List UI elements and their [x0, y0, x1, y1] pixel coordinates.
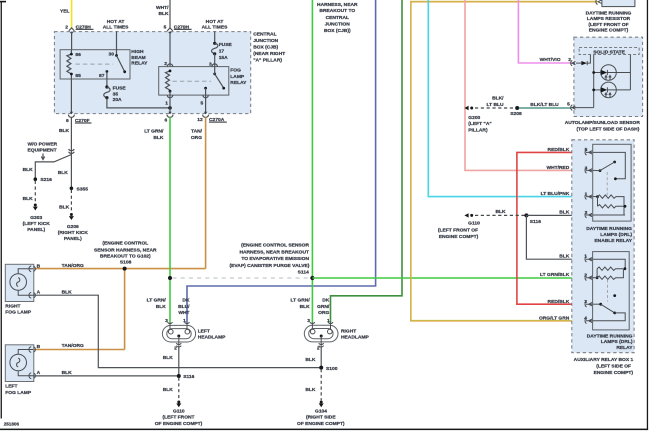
svg-text:BLK: BLK	[62, 370, 73, 376]
svg-text:BREAKOUT TO G102): BREAKOUT TO G102)	[100, 253, 151, 259]
svg-text:BLK: BLK	[23, 167, 34, 173]
svg-text:G206: G206	[67, 224, 79, 230]
svg-text:5: 5	[200, 100, 203, 106]
svg-text:1: 1	[327, 318, 330, 324]
svg-text:S355: S355	[77, 186, 89, 192]
svg-text:WHT/RED: WHT/RED	[546, 165, 569, 171]
svg-text:BOX (CJB)): BOX (CJB))	[324, 28, 351, 34]
svg-text:DAYTIME RUNNING: DAYTIME RUNNING	[587, 333, 633, 339]
svg-text:FOG: FOG	[230, 68, 241, 74]
svg-text:(TOP LEFT SIDE OF DASH): (TOP LEFT SIDE OF DASH)	[576, 126, 639, 132]
svg-text:20A: 20A	[113, 97, 122, 103]
svg-text:YEL: YEL	[60, 8, 70, 14]
svg-text:HEADLAMP: HEADLAMP	[341, 334, 369, 340]
svg-text:LAMPS RESISTOR: LAMPS RESISTOR	[587, 16, 631, 22]
svg-text:AUTOLAMP/SUNLOAD SENSOR: AUTOLAMP/SUNLOAD SENSOR	[565, 120, 641, 126]
svg-text:PANEL): PANEL)	[27, 227, 45, 233]
svg-text:(ENGINE CONTROL SENSOR: (ENGINE CONTROL SENSOR	[241, 243, 309, 249]
svg-text:CENTRAL: CENTRAL	[253, 31, 276, 37]
svg-text:RIGHT: RIGHT	[5, 303, 20, 309]
svg-text:ENABLE RELAY: ENABLE RELAY	[594, 238, 632, 244]
svg-text:RED/BLK: RED/BLK	[548, 299, 570, 305]
svg-text:BOX (CJB): BOX (CJB)	[253, 44, 278, 50]
svg-text:LAMPS (DRL): LAMPS (DRL)	[600, 232, 632, 238]
svg-text:HEADLAMP: HEADLAMP	[198, 335, 226, 341]
svg-text:BLK: BLK	[559, 210, 570, 216]
svg-text:(LEFT FRONT OF: (LEFT FRONT OF	[588, 22, 628, 28]
svg-text:1: 1	[183, 318, 186, 324]
svg-text:2: 2	[65, 24, 68, 30]
svg-text:RELAY: RELAY	[616, 345, 633, 351]
svg-text:DAYTIME RUNNING: DAYTIME RUNNING	[586, 226, 632, 232]
svg-text:WHT: WHT	[178, 310, 189, 316]
svg-text:251806: 251806	[4, 422, 20, 427]
svg-text:(NEAR RIGHT: (NEAR RIGHT	[253, 51, 285, 57]
svg-text:LT GRN/: LT GRN/	[144, 129, 164, 135]
svg-text:ENGINE COMPT): ENGINE COMPT)	[439, 234, 479, 240]
svg-text:DK: DK	[322, 298, 330, 304]
svg-text:LT GRN/: LT GRN/	[147, 298, 167, 304]
svg-text:ALL TIMES: ALL TIMES	[103, 25, 129, 31]
svg-text:BLK/: BLK/	[492, 96, 504, 102]
svg-text:35: 35	[113, 91, 119, 97]
svg-text:3: 3	[307, 318, 310, 324]
svg-text:RED/BLK: RED/BLK	[548, 147, 570, 153]
svg-text:G104: G104	[315, 408, 327, 414]
svg-text:FUSE: FUSE	[113, 85, 127, 91]
svg-text:12: 12	[197, 117, 203, 123]
svg-text:85: 85	[75, 73, 81, 79]
svg-text:ORG/LT GRN: ORG/LT GRN	[539, 316, 570, 322]
svg-text:2: 2	[164, 61, 167, 67]
svg-text:3: 3	[165, 318, 168, 324]
svg-text:AUXILIARY RELAY BOX 1: AUXILIARY RELAY BOX 1	[574, 357, 634, 363]
svg-text:SENSOR HARNESS, NEAR: SENSOR HARNESS, NEAR	[94, 247, 157, 253]
svg-text:BLK: BLK	[153, 135, 164, 141]
svg-text:ENGINE COMPT): ENGINE COMPT)	[589, 28, 629, 34]
svg-text:6: 6	[66, 118, 69, 124]
svg-text:G303: G303	[30, 215, 42, 221]
svg-text:S116: S116	[530, 219, 541, 225]
svg-text:PANEL): PANEL)	[64, 236, 82, 242]
svg-text:(LEFT "A": (LEFT "A"	[468, 121, 491, 127]
svg-text:BLU/: BLU/	[178, 304, 190, 310]
svg-text:S116: S116	[183, 374, 194, 380]
svg-text:"A" PILLAR): "A" PILLAR)	[253, 57, 282, 63]
svg-text:LAMP: LAMP	[230, 74, 245, 80]
svg-text:(EVAP) CANISTER PURGE VALVE): (EVAP) CANISTER PURGE VALVE)	[230, 263, 310, 269]
svg-text:G200: G200	[468, 115, 480, 121]
svg-text:OF ENGINE COMPT): OF ENGINE COMPT)	[297, 421, 345, 427]
svg-text:3: 3	[209, 62, 212, 68]
svg-text:ALL TIMES: ALL TIMES	[202, 25, 228, 31]
svg-text:(ENGINE CONTROL: (ENGINE CONTROL	[102, 241, 148, 247]
svg-text:FUSE: FUSE	[219, 42, 233, 48]
svg-text:G110: G110	[173, 408, 185, 414]
svg-text:(LEFT FRONT: (LEFT FRONT	[162, 415, 194, 421]
svg-text:BREAKOUT TO: BREAKOUT TO	[319, 8, 355, 14]
svg-text:SOLID STATE: SOLID STATE	[593, 50, 625, 56]
svg-text:15A: 15A	[219, 55, 228, 61]
svg-text:ORG: ORG	[318, 310, 329, 316]
svg-text:LT BLU: LT BLU	[486, 102, 503, 108]
svg-text:BLK/LT BLU: BLK/LT BLU	[530, 102, 559, 108]
svg-text:BLK: BLK	[559, 253, 570, 259]
svg-text:BLK: BLK	[300, 304, 311, 310]
svg-text:BLK: BLK	[58, 170, 69, 176]
svg-text:30: 30	[109, 51, 115, 57]
svg-text:G110: G110	[468, 220, 480, 226]
svg-text:WHT/: WHT/	[156, 5, 169, 11]
svg-text:DAYTIME RUNNING: DAYTIME RUNNING	[586, 10, 632, 16]
svg-text:FOG LAMP: FOG LAMP	[5, 390, 32, 396]
svg-text:S216: S216	[40, 177, 52, 183]
svg-text:BLK: BLK	[156, 304, 167, 310]
svg-text:BLK: BLK	[59, 205, 70, 211]
svg-text:S100: S100	[326, 366, 338, 372]
svg-text:87: 87	[99, 73, 105, 79]
svg-text:LEFT: LEFT	[5, 384, 17, 390]
svg-text:LAMPS (DRL): LAMPS (DRL)	[601, 339, 633, 345]
svg-text:S114: S114	[298, 270, 309, 276]
svg-text:2: 2	[174, 345, 177, 351]
svg-text:BLK: BLK	[59, 128, 70, 134]
svg-text:HARNESS, NEAR: HARNESS, NEAR	[317, 2, 358, 8]
svg-text:TAN/ORG: TAN/ORG	[62, 343, 84, 349]
svg-text:LT GRN/BLK: LT GRN/BLK	[540, 272, 570, 278]
svg-text:CENTRAL: CENTRAL	[326, 15, 349, 21]
svg-text:86: 86	[75, 52, 81, 58]
svg-text:S108: S108	[120, 260, 132, 266]
svg-text:2: 2	[317, 345, 320, 351]
svg-text:LT GRN/: LT GRN/	[290, 298, 310, 304]
svg-text:(LEFT SIDE OF: (LEFT SIDE OF	[596, 363, 631, 369]
svg-text:5: 5	[567, 102, 570, 108]
svg-text:ENGINE COMPT): ENGINE COMPT)	[594, 370, 634, 376]
svg-text:ORG: ORG	[191, 135, 202, 141]
svg-text:W/O POWER: W/O POWER	[28, 141, 58, 147]
svg-text:DK: DK	[182, 298, 190, 304]
svg-text:JUNCTION: JUNCTION	[325, 21, 350, 27]
svg-text:BLK: BLK	[305, 357, 316, 363]
svg-text:OF ENGINE COMPT): OF ENGINE COMPT)	[155, 421, 203, 427]
svg-text:RIGHT: RIGHT	[341, 329, 356, 335]
svg-text:BLK: BLK	[305, 387, 316, 393]
svg-text:TAN/: TAN/	[191, 129, 203, 135]
svg-text:WHT/VIO: WHT/VIO	[540, 57, 561, 63]
svg-text:1: 1	[165, 100, 168, 106]
svg-text:B: B	[37, 264, 41, 270]
svg-text:EQUIPMENT: EQUIPMENT	[28, 148, 57, 154]
svg-text:5: 5	[164, 24, 167, 30]
svg-text:HIGH: HIGH	[131, 49, 144, 55]
svg-text:(RIGHT KICK: (RIGHT KICK	[58, 230, 89, 236]
svg-text:HOT AT: HOT AT	[206, 19, 224, 25]
svg-text:GRN/: GRN/	[317, 304, 330, 310]
svg-text:A: A	[37, 370, 41, 376]
svg-text:(LEFT KICK: (LEFT KICK	[23, 221, 51, 227]
svg-text:TAN/ORG: TAN/ORG	[62, 263, 84, 269]
svg-text:RELAY: RELAY	[230, 80, 247, 86]
svg-text:BLK: BLK	[23, 196, 34, 202]
svg-text:6: 6	[164, 118, 167, 124]
svg-text:BLK: BLK	[158, 11, 169, 17]
svg-text:LT BLU/PNK: LT BLU/PNK	[541, 191, 570, 197]
svg-text:17: 17	[219, 49, 225, 55]
svg-text:HOT AT: HOT AT	[107, 19, 125, 25]
svg-text:PILLAR): PILLAR)	[468, 127, 488, 133]
svg-text:BLK: BLK	[163, 355, 174, 361]
svg-text:JUNCTION: JUNCTION	[253, 38, 278, 44]
svg-text:BLK: BLK	[163, 387, 174, 393]
svg-text:(RIGHT SIDE: (RIGHT SIDE	[306, 415, 336, 421]
svg-text:BEAM: BEAM	[131, 55, 145, 61]
svg-text:(LEFT FRONT OF: (LEFT FRONT OF	[438, 227, 478, 233]
svg-text:BLK: BLK	[495, 209, 506, 215]
svg-text:LEFT: LEFT	[198, 329, 210, 335]
svg-text:RELAY: RELAY	[131, 61, 148, 67]
svg-text:TO EVAPORATIVE EMISSION: TO EVAPORATIVE EMISSION	[241, 256, 309, 262]
svg-text:HARNESS, NEAR BREAKOUT: HARNESS, NEAR BREAKOUT	[239, 249, 309, 255]
svg-text:FOG LAMP: FOG LAMP	[5, 310, 32, 316]
svg-text:S208: S208	[510, 111, 522, 117]
svg-text:B: B	[37, 344, 41, 350]
